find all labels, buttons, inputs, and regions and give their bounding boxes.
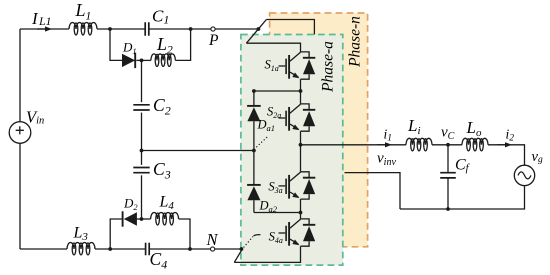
igbt S1a collector diagonal <box>290 52 301 61</box>
igbt S1a emitter arrowhead <box>292 73 299 79</box>
igbt S1a antiparallel diode <box>303 59 315 74</box>
phase-a top rail <box>246 43 300 52</box>
dotted bus continuation at N <box>244 237 254 248</box>
rail junction to S4a <box>300 213 302 219</box>
inductor L4 <box>151 213 179 226</box>
inductor L2 <box>151 54 175 67</box>
wire C3 down to D2-L4 row <box>141 175 143 219</box>
dc source Vin circle <box>9 122 31 144</box>
junction at C1 right <box>189 27 193 31</box>
wire D2 to L4 <box>136 218 151 220</box>
junction N bus <box>240 247 244 251</box>
igbt S4a collector diagonal <box>290 219 301 228</box>
wire down to C2 <box>141 60 143 102</box>
junction S3a-S4a <box>299 211 303 215</box>
rail S3a to junction <box>300 199 302 212</box>
igbt S3a antiparallel diode <box>303 179 315 194</box>
junction node top-left <box>108 27 112 31</box>
clamp bottom horizontal <box>254 212 301 214</box>
wire vC down to Cf <box>447 145 449 173</box>
igbt S2a emitter diagonal <box>290 124 298 129</box>
wire C1 to slant bus <box>149 28 259 30</box>
igbt S4a gate lead <box>279 232 286 234</box>
junction S1a-S2a <box>299 89 303 93</box>
capacitor Cf <box>440 173 456 178</box>
wire bottom rail from Vin to L3 <box>20 248 67 250</box>
return wire from phase-n <box>345 173 401 209</box>
node N <box>211 247 215 251</box>
inductor Lo <box>462 138 488 151</box>
wire middle rail to C3 <box>141 151 143 165</box>
igbt S3a collector-emitter stubs and diode branch <box>301 172 310 199</box>
middle clamp rail <box>142 150 254 152</box>
capacitor C4 <box>146 243 150 256</box>
inductor L1 <box>69 23 97 35</box>
clamp diode Da2 <box>247 186 260 200</box>
phase-n top rail <box>266 20 314 35</box>
wire branch down to D1 <box>110 29 122 60</box>
phase output wire to Li <box>301 144 407 146</box>
junction Cf bottom <box>446 207 450 211</box>
rail junction to S2a <box>300 91 302 104</box>
clamp diode Da1 <box>247 107 260 121</box>
diode D2 <box>124 212 137 225</box>
igbt S1a gate bars <box>285 59 287 74</box>
wire top rail from Vin to L1 <box>20 28 69 30</box>
igbt S2a collector diagonal <box>290 104 301 113</box>
rail output node to S3a <box>300 145 302 172</box>
igbt S1a collector-emitter stubs and diode branch <box>301 52 310 79</box>
junction phase output <box>299 143 303 147</box>
rail S2a to output node <box>300 131 302 145</box>
igbt S3a emitter diagonal <box>290 192 298 197</box>
wire Lo to vg <box>488 145 525 165</box>
junction clamp top left <box>252 89 256 93</box>
igbt S2a gate bars <box>285 111 287 126</box>
wire bottom branch left <box>110 219 122 249</box>
svg-text:N: N <box>206 230 219 249</box>
junction middle rail left <box>140 149 144 153</box>
igbt S1a gate lead <box>279 65 286 67</box>
junction clamp middle <box>252 149 256 153</box>
igbt S2a gate lead <box>279 117 286 119</box>
junction C4 right <box>188 247 192 251</box>
junction P bus <box>257 27 261 31</box>
bottom return rail <box>400 186 525 209</box>
igbt S4a collector-emitter stubs and diode branch <box>301 219 310 246</box>
inductor Li <box>406 138 432 151</box>
junction bottom-left <box>108 247 112 251</box>
igbt S3a collector diagonal <box>290 172 301 181</box>
phase-a region box (green dashed) <box>241 35 343 266</box>
capacitor C3 <box>133 168 149 173</box>
current arrow i2 <box>505 142 512 147</box>
wire Li to vC node <box>432 144 462 146</box>
inductor L3 <box>67 243 95 256</box>
svg-text:P: P <box>208 32 219 49</box>
igbt S3a gate lead <box>279 185 286 187</box>
junction D1-L2 midpoint <box>140 59 144 63</box>
dotted phase continuation at clamp middle <box>256 136 268 147</box>
ac source vg circle <box>514 165 534 185</box>
clamp top horizontal <box>254 90 301 92</box>
slant bus connector at N <box>234 249 242 262</box>
igbt S3a gate bars <box>285 179 287 194</box>
wire C4 to slant bus <box>149 248 241 250</box>
wire L3 to C4 <box>95 248 146 250</box>
phase-n region box (orange dashed) <box>270 13 368 247</box>
ac source vg sine <box>518 172 531 179</box>
wire L4 down to bottom rail <box>179 219 190 249</box>
igbt S4a emitter arrowhead <box>292 240 299 246</box>
junction node vC <box>446 143 450 147</box>
current arrow i1 <box>385 142 392 147</box>
igbt S2a collector-emitter stubs and diode branch <box>301 104 310 131</box>
clamp diode Da1 branch wire <box>253 91 255 151</box>
igbt S2a antiparallel diode <box>303 111 315 126</box>
clamp diode Da2 branch wire <box>253 151 255 213</box>
svg-text:Phase-a: Phase-a <box>320 41 337 93</box>
igbt S4a emitter diagonal <box>290 239 298 244</box>
wire C2 to middle rail <box>141 113 143 151</box>
phase-a bottom rail <box>234 246 300 262</box>
diode D1 <box>122 54 135 67</box>
rail S1a to junction <box>300 79 302 91</box>
igbt S3a emitter arrowhead <box>292 192 299 198</box>
capacitor C1 <box>145 22 149 36</box>
igbt S2a emitter arrowhead <box>292 125 299 131</box>
dc source Vin plus sign <box>16 126 24 134</box>
slant bus connector at P <box>246 20 266 44</box>
capacitor C2 <box>133 105 149 110</box>
igbt S4a antiparallel diode <box>303 226 315 241</box>
svg-text:Phase-n: Phase-n <box>347 16 364 68</box>
igbt S1a emitter diagonal <box>290 72 298 77</box>
current arrow I_L1 <box>45 26 52 31</box>
igbt S4a gate bars <box>285 226 287 241</box>
junction D2-L4 midpoint <box>140 217 144 221</box>
node P <box>211 27 215 31</box>
wire Cf to bottom return <box>447 178 449 209</box>
wire D1 to L2 <box>136 59 151 61</box>
wire L1 to C1 <box>97 28 145 30</box>
wire L2 up to top rail <box>175 29 190 60</box>
wire left vertical from top wire to Vin and Vin to bottom wire <box>19 29 21 249</box>
